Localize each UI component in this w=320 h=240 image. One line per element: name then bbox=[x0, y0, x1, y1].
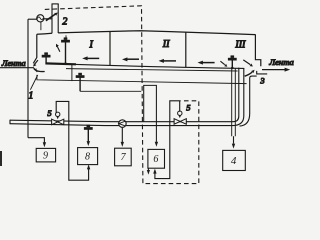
funnel arrow left lower bbox=[33, 69, 44, 72]
wire nozzle N1 stem bbox=[65, 42, 67, 63]
node dot at floor junction bbox=[64, 62, 67, 65]
wire left line to box 9 bbox=[28, 138, 44, 143]
arrow into box 4 top bbox=[232, 144, 235, 149]
belt exit line left bbox=[0, 68, 37, 72]
scan edge artifact bbox=[0, 151, 2, 166]
valve 5 right actuator bbox=[178, 111, 182, 118]
wire nozzle N5 stem bbox=[231, 60, 233, 68]
svg-text:5: 5 bbox=[47, 108, 51, 118]
main pipe top line with right elbow bbox=[10, 68, 239, 122]
bypass arch left valve bbox=[56, 101, 88, 180]
belt arrow section I bbox=[82, 56, 99, 60]
damper 2 (slanted lever with arrow) bbox=[46, 13, 58, 21]
box 6 bbox=[148, 149, 165, 168]
nozzle N2 lower section I bbox=[42, 52, 51, 57]
duct pair N5 to box 4 bbox=[232, 68, 236, 136]
svg-text:II: II bbox=[162, 39, 170, 50]
wire nozzle N3 stem bbox=[79, 78, 81, 92]
arrow between N1 and N2 bbox=[56, 44, 60, 52]
main pipe bottom line with right elbow bbox=[10, 68, 244, 126]
step line 3 bbox=[257, 71, 268, 74]
wire fan stub down bbox=[40, 22, 42, 30]
wire nozzle N2 stem bbox=[45, 57, 47, 63]
tunnel top wall bbox=[37, 31, 256, 35]
nozzle N4 above box 8 bbox=[84, 125, 93, 130]
svg-text:I: I bbox=[89, 39, 94, 50]
valve 5 right (bowtie) bbox=[174, 119, 186, 125]
duct D1 under floor bbox=[66, 69, 238, 71]
box 8 bbox=[78, 148, 98, 165]
pipe end cap bbox=[9, 120, 11, 125]
exhaust stack bbox=[52, 4, 59, 33]
tunnel right wall with step bbox=[255, 34, 260, 66]
wire pump to box 7 bbox=[121, 128, 123, 143]
arrow into box 6 top bbox=[155, 142, 158, 147]
duct D3 to box 6 bbox=[144, 85, 157, 141]
belt arrow right bbox=[262, 68, 290, 72]
funnel arrow right lower bbox=[245, 70, 255, 76]
fan G1 (circle with sine) bbox=[37, 15, 44, 22]
outer bypass line to belt inlet 3 bbox=[240, 76, 257, 126]
tunnel floor bbox=[76, 64, 244, 68]
valve 5 left (bowtie) bbox=[52, 119, 64, 125]
dashed enclosure bbox=[45, 6, 199, 184]
node dot N5 floor bbox=[231, 67, 234, 70]
tunnel left wall bbox=[33, 34, 37, 63]
vent arrow below box 6 bbox=[147, 169, 150, 175]
belt arrow section II b bbox=[159, 59, 177, 63]
svg-text:6: 6 bbox=[153, 154, 158, 165]
nozzle N3 under floor bbox=[76, 73, 85, 78]
nozzle N5 section III bbox=[228, 55, 237, 60]
wire floor to D2 connector bbox=[71, 64, 73, 81]
section divider II/III bbox=[185, 32, 187, 67]
wire left outer vertical bbox=[27, 19, 29, 138]
box 9 bbox=[36, 148, 55, 162]
svg-text:Лента: Лента bbox=[1, 59, 26, 68]
nozzle N1 upper section I bbox=[61, 37, 70, 42]
box 7 bbox=[115, 148, 132, 166]
svg-text:3: 3 bbox=[259, 76, 264, 86]
section divider I/II bbox=[109, 32, 111, 66]
arrow toward N5 base bbox=[220, 61, 227, 66]
svg-text:III: III bbox=[234, 40, 246, 51]
wire fan suction to left down-line bbox=[28, 18, 37, 20]
wire fan to stack bbox=[44, 18, 52, 20]
funnel arrow left upper bbox=[33, 60, 38, 67]
tunnel floor thick segment bbox=[45, 62, 76, 65]
svg-text:Лента: Лента bbox=[268, 57, 294, 67]
duct D2 under floor bbox=[37, 75, 247, 84]
arrow into box 7 top bbox=[121, 142, 124, 147]
svg-text:9: 9 bbox=[43, 151, 48, 162]
bypass arch right valve bbox=[155, 101, 180, 179]
svg-text:1: 1 bbox=[28, 90, 33, 101]
duct D4 to main pipe bbox=[80, 90, 141, 92]
svg-text:2: 2 bbox=[62, 17, 67, 28]
box 4 bbox=[223, 150, 246, 170]
svg-text:5: 5 bbox=[186, 103, 190, 113]
wire to box 4 bbox=[233, 136, 235, 143]
svg-text:4: 4 bbox=[231, 155, 237, 167]
arrow into box 9 top bbox=[43, 142, 46, 147]
label 1 leader bbox=[30, 75, 37, 90]
belt arrow section III bbox=[198, 61, 215, 65]
pump P (circle with cross) bbox=[119, 120, 127, 128]
belt arrow section II a bbox=[122, 57, 139, 61]
funnel arrow right upper bbox=[243, 60, 253, 67]
valve 5 left actuator bbox=[56, 112, 60, 119]
arrow into box 6 bottom bbox=[153, 169, 156, 174]
arrow into box 8 bottom bbox=[87, 164, 90, 169]
wire N4 stem to box 8 bbox=[87, 129, 89, 141]
arrow into box 8 top bbox=[87, 141, 90, 146]
svg-text:8: 8 bbox=[85, 151, 90, 162]
wire nozzle N1 top stub bbox=[65, 35, 67, 38]
